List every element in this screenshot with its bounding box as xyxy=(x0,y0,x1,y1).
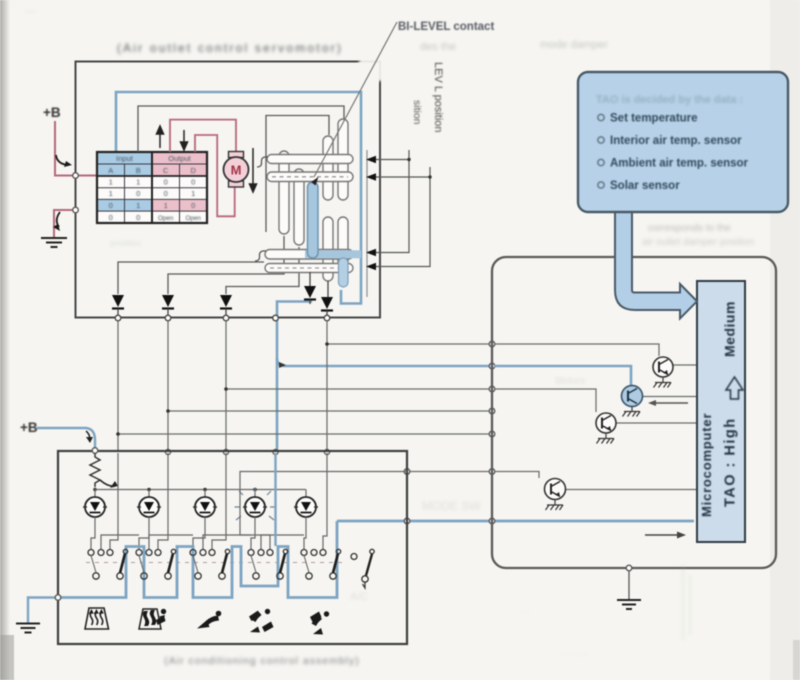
svg-text:TAO : High: TAO : High xyxy=(723,417,739,507)
svg-text:(Air outlet control servomotor: (Air outlet control servomotor) xyxy=(117,41,343,55)
svg-text:0: 0 xyxy=(136,189,140,198)
svg-text:A/C: A/C xyxy=(350,591,368,603)
svg-text:mode damper: mode damper xyxy=(540,39,608,51)
svg-text:C: C xyxy=(163,166,169,175)
svg-text:Solar sensor: Solar sensor xyxy=(610,180,680,192)
svg-text:0: 0 xyxy=(191,201,195,210)
svg-text:Interior air temp. sensor: Interior air temp. sensor xyxy=(610,135,742,147)
svg-text:0: 0 xyxy=(191,178,195,187)
svg-text:Output: Output xyxy=(168,154,191,163)
svg-text:air outlet damper position: air outlet damper position xyxy=(642,237,754,248)
svg-text:Motors: Motors xyxy=(555,376,586,387)
svg-text:position: position xyxy=(110,238,141,248)
svg-text:0: 0 xyxy=(109,201,113,210)
svg-text:0: 0 xyxy=(109,213,113,222)
svg-text:1: 1 xyxy=(136,201,140,210)
svg-text:sition: sition xyxy=(411,100,423,125)
svg-text:(Air conditioning control asse: (Air conditioning control assembly) xyxy=(164,655,359,667)
svg-text:Set temperature: Set temperature xyxy=(610,113,698,125)
svg-text:A: A xyxy=(108,166,113,175)
svg-text:M: M xyxy=(231,163,242,178)
svg-text:0: 0 xyxy=(136,213,140,222)
svg-text:Open: Open xyxy=(158,215,174,222)
svg-text:1: 1 xyxy=(136,178,140,187)
svg-text:Open: Open xyxy=(185,215,201,222)
svg-text:1: 1 xyxy=(164,201,168,210)
svg-text:Microcomputer: Microcomputer xyxy=(699,413,714,517)
svg-text:.. .: .. . xyxy=(520,604,530,614)
svg-text:D: D xyxy=(190,166,196,175)
svg-text:....: .... xyxy=(25,4,36,15)
svg-text:0: 0 xyxy=(164,189,168,198)
svg-text:LEV L position: LEV L position xyxy=(432,62,444,133)
svg-text:B: B xyxy=(136,166,141,175)
svg-text:Input: Input xyxy=(116,154,134,163)
svg-text:corresponds to the: corresponds to the xyxy=(648,223,731,234)
svg-text:+B: +B xyxy=(43,105,61,120)
svg-text:des the: des the xyxy=(420,41,456,53)
svg-text:Ambient air temp. sensor: Ambient air temp. sensor xyxy=(610,158,749,170)
svg-text:1: 1 xyxy=(191,189,195,198)
svg-text:+B: +B xyxy=(20,420,38,435)
svg-text:MODE SW: MODE SW xyxy=(422,499,481,513)
svg-text:BI-LEVEL contact: BI-LEVEL contact xyxy=(398,21,494,33)
svg-text:0: 0 xyxy=(164,178,168,187)
svg-text:TAO is decided by the data :: TAO is decided by the data : xyxy=(596,94,743,106)
svg-text:Medium: Medium xyxy=(722,301,738,357)
svg-text:. . . .. .: . . . .. . xyxy=(560,647,588,658)
svg-text:1: 1 xyxy=(109,189,113,198)
svg-text:1: 1 xyxy=(109,178,113,187)
